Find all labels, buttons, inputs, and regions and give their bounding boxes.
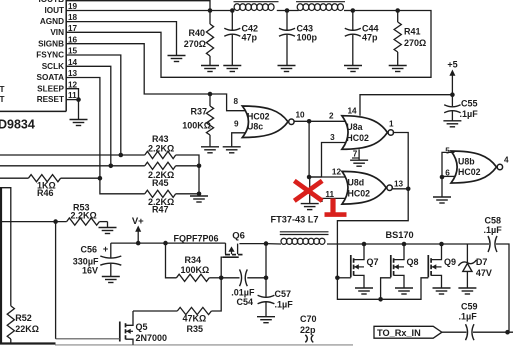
svg-text:U8b: U8b: [458, 156, 475, 166]
svg-text:17: 17: [68, 24, 78, 33]
junction R47 right: [197, 192, 202, 197]
svg-text:22p: 22p: [300, 325, 316, 335]
svg-text:VIN: VIN: [50, 28, 64, 37]
inductor L6: [297, 4, 343, 11]
op-amp U8d NOR gate: [342, 171, 392, 204]
label C58: [484, 215, 503, 235]
wire U8a pin14 to +5 rail: [360, 95, 452, 116]
svg-text:HC02: HC02: [348, 188, 371, 198]
AD9834 pin name and number labels: [36, 2, 77, 104]
svg-text:13: 13: [68, 69, 78, 78]
junction R46-SOATA: [98, 176, 103, 181]
resistor R37: [206, 94, 213, 147]
IC AD9834 body (partially cropped): [0, 0, 66, 111]
junction R41 node: [395, 8, 400, 13]
label R46: [37, 180, 56, 198]
wire U8c pin9 to ground: [232, 133, 246, 147]
svg-text:16: 16: [68, 35, 78, 44]
label pin8: [234, 97, 239, 106]
junction FSYNC: [119, 153, 124, 158]
wire Q7 gate feed: [337, 277, 350, 279]
label R41: [404, 27, 426, 49]
wire gate bus: [337, 278, 428, 300]
svg-text:100p: 100p: [297, 33, 318, 43]
wire Q8 gate feed: [381, 278, 391, 300]
label R43: [148, 134, 174, 153]
junction RESET-SLEEP: [76, 97, 81, 102]
svg-text:SLEEP: SLEEP: [37, 84, 64, 93]
svg-text:2.2KΩ: 2.2KΩ: [148, 143, 174, 153]
label pin5: [445, 146, 450, 155]
svg-text:14: 14: [348, 107, 358, 116]
junction R45 right: [197, 164, 202, 169]
resistor R52: [7, 306, 14, 344]
svg-text:C55: C55: [461, 99, 478, 109]
junction C44 node: [351, 8, 356, 13]
ground C42: [223, 66, 241, 72]
svg-text:SCLK: SCLK: [42, 62, 64, 71]
svg-text:47KΩ: 47KΩ: [183, 314, 207, 324]
junction +5 node: [450, 92, 455, 97]
wire Q5 gate from R53 node: [56, 338, 120, 340]
svg-text:HC02: HC02: [247, 111, 270, 121]
svg-text:8: 8: [234, 97, 239, 106]
label D7: [476, 257, 492, 278]
svg-text:.1µF: .1µF: [275, 300, 294, 310]
junction R53-Q5gate: [53, 219, 58, 224]
label C57: [275, 289, 294, 310]
wire drain node down to C57: [265, 244, 267, 297]
junction U8c output node: [307, 119, 312, 124]
label BS170: [386, 230, 414, 240]
svg-text:R40: R40: [188, 28, 205, 38]
ground R37: [201, 147, 219, 153]
wire U8c output down to U8d pin12: [308, 121, 310, 177]
svg-text:C54: C54: [236, 297, 253, 307]
wire IOUT pin19 to filter input node: [66, 10, 210, 12]
svg-text:.1µF: .1µF: [459, 312, 478, 322]
inductor L5: [234, 4, 274, 11]
label C43: [297, 24, 318, 43]
svg-text:47p: 47p: [242, 33, 258, 43]
wire left black border: [0, 188, 2, 344]
wire AGND pin18 to ground: [66, 22, 176, 56]
wire U8d output to gate bus: [392, 188, 409, 190]
wire IOUTB pin20 to filter input: [66, 1, 210, 11]
svg-text:U8d: U8d: [348, 177, 365, 187]
svg-text:BS170: BS170: [386, 230, 414, 240]
transistor Q6 FQPF7P06 P-MOSFET: [221, 243, 266, 278]
svg-text:18: 18: [68, 13, 78, 22]
wire SOATA bus line: [100, 178, 145, 194]
capacitor C59 (series): [466, 324, 475, 340]
wire node to U8d pin12: [309, 176, 345, 178]
wire SLEEP pin12 joins RESET: [66, 89, 78, 100]
transformer L7 core: [280, 232, 329, 235]
resistor R53: [67, 218, 108, 228]
junction Q9 drain: [439, 242, 444, 247]
capacitor C58 (series): [488, 236, 497, 252]
wire U8d pin11 stub: [322, 198, 346, 202]
diode D7 zener 47V: [458, 244, 476, 288]
cropped net labels at left edge: [0, 85, 4, 104]
label C44: [362, 24, 379, 43]
wire TO_Rx_IN to C59: [442, 331, 467, 333]
resistor R41: [394, 11, 401, 66]
ground RESET: [70, 120, 88, 126]
op-amp U8b NOR gate: [451, 151, 503, 183]
inductor L6 core line: [296, 1, 345, 3]
junction Q7 drain: [362, 242, 367, 247]
svg-text:1: 1: [389, 120, 394, 129]
transistor Q7 BS170: [351, 244, 364, 288]
label U8d: [348, 177, 371, 198]
svg-text:ET: ET: [0, 85, 4, 94]
svg-text:SOATA: SOATA: [37, 73, 65, 82]
svg-text:IOUTB: IOUTB: [39, 0, 65, 4]
IOUTB pin label sliver (cropped top): [39, 0, 65, 4]
wire to R52 from left edge: [0, 188, 11, 306]
junction R34 tap: [163, 241, 168, 246]
svg-text:11: 11: [68, 91, 77, 100]
wire R53 node down to Q5 gate: [55, 222, 57, 339]
wire FSYNC pin15 down to bus: [66, 55, 121, 155]
inductor L7 winding: [281, 238, 325, 244]
ground Q7: [355, 288, 373, 294]
svg-text:V+: V+: [132, 216, 144, 227]
capacitor C54 (series): [221, 269, 266, 286]
label pin12: [332, 168, 342, 177]
wire R53 feed: [0, 221, 67, 223]
label C54: [231, 287, 255, 307]
transistor Q8 BS170: [391, 244, 404, 288]
label pin4: [504, 156, 509, 165]
svg-text:13: 13: [394, 179, 404, 188]
capacitor C55: [444, 95, 460, 121]
svg-text:R35: R35: [187, 324, 204, 334]
svg-text:19: 19: [68, 2, 78, 11]
svg-text:Q5: Q5: [136, 322, 148, 332]
svg-text:FQPF7P06: FQPF7P06: [174, 233, 219, 243]
label R45: [148, 170, 174, 188]
label Q8: [407, 257, 419, 267]
resistor R35: [133, 278, 221, 315]
resistor R46: [0, 175, 100, 182]
svg-text:.1µF: .1µF: [484, 225, 503, 235]
svg-text:+: +: [103, 244, 109, 255]
svg-text:47p: 47p: [362, 33, 378, 43]
svg-text:15: 15: [68, 47, 78, 56]
junction C54-C57 node: [264, 276, 269, 281]
wire FSYNC bus line: [0, 154, 145, 156]
wire U8a output to gate bus: [337, 133, 408, 278]
ground R40: [201, 66, 219, 72]
transistor Q9 BS170: [428, 244, 441, 288]
svg-text:U8a: U8a: [346, 122, 362, 132]
wire C58 to output: [496, 244, 509, 332]
junction Q8 drain: [402, 242, 407, 247]
junction drain node: [264, 241, 269, 246]
svg-text:Q6: Q6: [232, 231, 245, 242]
ground U8a pin7: [350, 160, 368, 166]
capacitor C56 (electrolytic): [100, 243, 121, 276]
svg-text:16V: 16V: [82, 265, 98, 275]
svg-text:100KΩ: 100KΩ: [182, 121, 211, 131]
svg-text:7: 7: [353, 150, 358, 159]
wire IOUT node to C42 node: [210, 10, 232, 12]
svg-text:R34: R34: [185, 255, 202, 265]
power +5 arrow: [447, 60, 457, 95]
resistor R34: [166, 243, 222, 281]
svg-text:FT37-43 L7: FT37-43 L7: [271, 214, 319, 224]
ground AGND: [168, 56, 186, 62]
wire C59 to output node: [473, 331, 513, 333]
svg-text:HC02: HC02: [458, 167, 481, 177]
svg-text:3: 3: [330, 133, 335, 142]
wire L7 to BS170 drains: [327, 243, 489, 245]
svg-text:2: 2: [329, 112, 334, 121]
svg-text:+5: +5: [447, 60, 457, 70]
svg-text:Q8: Q8: [407, 257, 419, 267]
label FT37-43 L7: [271, 214, 319, 224]
power V+ arrow: [132, 216, 144, 243]
label Q5: [136, 322, 168, 343]
svg-text:C70: C70: [300, 314, 317, 324]
red X annotation: [294, 181, 322, 201]
svg-text:R47: R47: [152, 205, 169, 215]
label FQPF7P06: [174, 233, 219, 243]
ground C56: [102, 277, 120, 283]
svg-text:SIGNB: SIGNB: [38, 39, 64, 48]
junction C43 node: [285, 8, 290, 13]
IC name label D9834 (cropped AD9834): [0, 118, 35, 132]
wire VIN pin17 to filter output (wraps around): [66, 11, 431, 78]
svg-text:R46: R46: [37, 188, 54, 198]
svg-text:4: 4: [504, 156, 509, 165]
svg-text:.1µF: .1µF: [460, 109, 479, 119]
junction IOUT node: [208, 8, 213, 13]
wire U8c output to U8a pin2: [294, 120, 345, 122]
ground bus resistors: [190, 196, 208, 202]
wire U8b pins 5,6 tied to ground: [442, 152, 455, 197]
label pin1: [389, 120, 394, 129]
resistor R45: [145, 162, 199, 169]
label Q7: [367, 257, 379, 267]
svg-text:IOUT: IOUT: [44, 6, 64, 15]
wire SIGNB pin16 to U8c input: [66, 44, 245, 111]
ground Q9: [433, 288, 451, 294]
junction SCLK: [109, 164, 114, 169]
capacitor C42: [224, 11, 240, 66]
svg-text:5: 5: [445, 146, 450, 155]
junction V+ node: [136, 241, 141, 246]
label pin10: [296, 111, 306, 120]
ground U8c pin9: [223, 147, 241, 153]
ground C57: [257, 317, 275, 323]
label C55: [460, 99, 479, 120]
svg-text:2.2KΩ: 2.2KΩ: [71, 210, 97, 220]
svg-text:12: 12: [332, 168, 342, 177]
ground C43: [278, 66, 296, 72]
svg-text:D7: D7: [476, 257, 488, 267]
junction U8b pin6: [440, 175, 445, 180]
wire bottom cropped line: [55, 344, 353, 346]
wire L6 to C44 node: [344, 10, 353, 12]
label pin13: [394, 179, 404, 188]
svg-text:C59: C59: [461, 302, 478, 312]
junction Q7 gate: [335, 276, 340, 281]
svg-text:270Ω: 270Ω: [184, 39, 206, 49]
svg-text:270Ω: 270Ω: [404, 38, 426, 48]
label pin2: [329, 112, 334, 121]
red ground-tack annotation: [325, 199, 347, 215]
svg-text:C58: C58: [485, 215, 502, 225]
wire V+ rail: [111, 242, 226, 244]
label C56: [73, 244, 109, 275]
wire U8d pin12 node to ground (crossed out): [309, 177, 311, 204]
label pin11: [325, 190, 334, 199]
svg-text:22KΩ: 22KΩ: [15, 324, 39, 334]
svg-text:.01µF: .01µF: [231, 287, 255, 297]
svg-text:C56: C56: [80, 245, 97, 255]
label C42: [242, 24, 259, 43]
svg-text:R52: R52: [15, 313, 32, 323]
label Q6: [232, 231, 245, 242]
ground R41: [389, 66, 407, 72]
svg-text:AGND: AGND: [40, 17, 64, 26]
svg-text:14: 14: [68, 58, 78, 67]
label R53: [71, 202, 97, 220]
svg-text:12: 12: [68, 80, 78, 89]
wire RESET pin11 to ground: [66, 100, 78, 120]
junction R37 node: [208, 92, 213, 97]
svg-text:Q9: Q9: [444, 257, 456, 267]
op-amp U8c NOR gate: [242, 106, 294, 138]
wire U8a pin7 to ground: [358, 149, 360, 159]
svg-text:100KΩ: 100KΩ: [181, 265, 210, 275]
svg-text:R45: R45: [152, 178, 169, 188]
wire Q5 source to bottom line: [132, 344, 134, 345]
label R37: [182, 107, 211, 131]
capacitor C57: [258, 295, 275, 316]
ground under red X: [301, 204, 319, 210]
ground R53: [99, 228, 117, 234]
label pin7: [352, 150, 359, 159]
junction Q6 gate node: [219, 276, 224, 281]
wire SCLK pin14 down to bus: [66, 66, 111, 166]
label U8b: [458, 156, 481, 177]
label U8c: [247, 111, 270, 131]
junction C42 node: [230, 8, 235, 13]
junction node at U8d pin12: [307, 175, 312, 180]
svg-text:11: 11: [325, 190, 334, 199]
svg-text:ET: ET: [0, 95, 4, 104]
label pin14: [348, 107, 358, 116]
label R40: [184, 28, 206, 49]
resistor R43: [145, 151, 199, 165]
wire bottom black border: [0, 342, 56, 344]
label C70: [300, 314, 317, 335]
capacitor C43: [279, 11, 295, 66]
resistor R40: [206, 11, 213, 66]
label U8a: [346, 122, 369, 143]
junction output node: [505, 330, 510, 335]
svg-text:2N7000: 2N7000: [136, 333, 168, 343]
inductor L5 core line: [234, 1, 279, 3]
svg-text:R41: R41: [404, 27, 421, 37]
label R52: [15, 313, 39, 334]
junction U8d output: [406, 187, 411, 192]
label R47: [148, 197, 174, 215]
svg-text:U8c: U8c: [247, 121, 263, 131]
capacitor C44: [345, 11, 361, 66]
node TO_Rx_IN flag: [374, 326, 442, 338]
svg-text:C57: C57: [275, 289, 292, 299]
ground D7: [458, 288, 476, 294]
label C59: [459, 302, 478, 322]
capacitor C70 (series, cropped): [305, 335, 313, 343]
svg-text:R37: R37: [190, 107, 207, 117]
resistor R47: [145, 190, 199, 197]
wire U8a pin3 feedback: [309, 143, 345, 178]
svg-text:Q7: Q7: [367, 257, 379, 267]
ground Q8: [395, 288, 413, 294]
ground C44: [344, 66, 362, 72]
svg-text:D9834: D9834: [0, 118, 35, 132]
wire L5 to C43 node: [277, 10, 299, 12]
label pin9: [234, 120, 239, 129]
svg-text:RESET: RESET: [37, 95, 64, 104]
ground C55: [443, 121, 461, 127]
wire SOATA pin13 down to bus: [66, 78, 100, 179]
ground U8b: [433, 197, 451, 203]
wire C44 node to R41: [353, 10, 398, 12]
transistor Q5 2N7000 N-MOSFET: [120, 311, 133, 344]
svg-text:TO_Rx_IN: TO_Rx_IN: [377, 328, 421, 338]
label R35: [183, 314, 207, 335]
svg-text:47V: 47V: [476, 268, 492, 278]
junction Q8 gate bus: [378, 297, 383, 302]
wire bus resistor common: [198, 166, 200, 196]
label Q9: [444, 257, 456, 267]
label R34: [181, 255, 210, 275]
op-amp U8a NOR gate: [342, 116, 394, 150]
wire SCLK bus line: [0, 165, 145, 167]
svg-text:FSYNC: FSYNC: [36, 51, 64, 60]
svg-text:9: 9: [234, 120, 239, 129]
svg-text:10: 10: [296, 111, 306, 120]
label pin3: [330, 133, 335, 142]
wire drain node to L7: [266, 243, 281, 245]
label pin6: [445, 169, 450, 178]
svg-text:HC02: HC02: [346, 133, 369, 143]
